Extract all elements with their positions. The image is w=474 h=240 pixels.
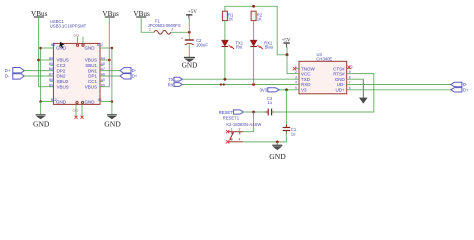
pin CC2 stub [50, 64, 53, 66]
wire C1 to GND rail [285, 131, 287, 142]
pin numbers U4 [295, 65, 353, 90]
no-connect mark Cf2 [81, 116, 84, 119]
ground (bottom center) [269, 142, 286, 161]
svg-text:UD-: UD- [337, 82, 345, 87]
fuse F1 [148, 18, 181, 34]
wire TXD net [182, 78, 294, 80]
svg-text:CfCf: CfCf [73, 33, 79, 37]
pin GND stub [347, 78, 352, 80]
no-connect mark switch pin1 [226, 130, 229, 133]
switch RESET1 K2-1808SN-A4SW [223, 115, 262, 141]
wire VBus left vertical [38, 17, 40, 87]
connector USBC1 body [53, 43, 100, 104]
pin V3 stub [294, 89, 299, 91]
svg-text:GND: GND [104, 119, 121, 128]
capacitor C1 [283, 112, 297, 136]
wire R2 to LED [253, 21, 255, 41]
svg-text:5: 5 [295, 86, 297, 90]
svg-text:1u: 1u [267, 100, 272, 105]
node junction R2 top [252, 5, 255, 8]
wire 3V3 to V3 [279, 89, 294, 91]
net port D+ (left) [5, 68, 24, 74]
svg-text:100uF: 100uF [196, 43, 208, 48]
pin CE circles top [76, 44, 78, 46]
mouse cursor [59, 42, 64, 49]
wire V3 node down [285, 90, 287, 112]
power flag VBus (middle) [102, 10, 119, 18]
node junction B1 [39, 47, 42, 50]
wire D- to DN2 [24, 75, 53, 77]
wire VBus middle vertical [108, 17, 110, 60]
svg-text:A8: A8 [101, 62, 105, 66]
no-connect mark switch pin3 [226, 140, 229, 143]
wire D+ to DP2 [24, 70, 53, 72]
wire switch pin2 up [243, 131, 254, 133]
capacitor C3 [265, 96, 275, 115]
IC U4 CH340E body [299, 61, 347, 94]
pin VCC stub [294, 73, 299, 75]
svg-text:+: + [181, 37, 183, 41]
svg-text:RESET1: RESET1 [223, 115, 240, 120]
wire reset junction to switch [253, 112, 255, 132]
svg-text:B7: B7 [49, 73, 53, 77]
net port RESET [219, 110, 244, 115]
net port D+ (right of connector) [120, 73, 138, 79]
net port RX [168, 82, 183, 87]
svg-text:VCC: VCC [301, 71, 311, 76]
svg-text:D+: D+ [132, 74, 138, 79]
pin SBU2 stub [50, 80, 53, 82]
net port D- (left) [5, 73, 24, 79]
pin numbers left column [49, 57, 53, 88]
svg-text:RX: RX [168, 82, 174, 87]
svg-text:RESET: RESET [219, 110, 234, 115]
power flag +5V (near fuse) [186, 10, 197, 32]
svg-text:4: 4 [295, 81, 297, 85]
wire DN1 to flag [100, 70, 120, 72]
no-connect mark CTS# [347, 66, 350, 69]
node junction RX LED [252, 83, 255, 86]
svg-text:CC2: CC2 [57, 63, 66, 68]
svg-text:2: 2 [171, 28, 173, 32]
node junction B12 [39, 100, 42, 103]
svg-text:Blau: Blau [265, 45, 274, 50]
pin circles bottom [76, 101, 78, 103]
svg-text:1: 1 [231, 127, 233, 131]
net port D- (right of connector) [120, 68, 137, 74]
svg-text:1: 1 [149, 28, 151, 32]
wire C2 to ground [188, 44, 190, 57]
resistor R2 [251, 11, 263, 21]
ground (U4) [359, 79, 368, 103]
svg-text:CC1: CC1 [88, 79, 97, 84]
wire RESET to C3 [243, 111, 267, 113]
svg-text:B5: B5 [49, 62, 53, 66]
wire LED TX1 to TXD [224, 47, 226, 79]
net port TX [168, 77, 182, 82]
svg-text:JFC0603-0500FS: JFC0603-0500FS [148, 23, 181, 28]
svg-text:VBUS: VBUS [57, 84, 69, 89]
wire GND of U4 [352, 78, 364, 80]
wire B1 stub [41, 47, 54, 49]
no-connect mark TNOW [293, 67, 296, 70]
wire right VBUS vertical [108, 60, 110, 87]
svg-text:V3: V3 [301, 88, 307, 93]
svg-text:CfCf: CfCf [73, 109, 79, 113]
svg-text:B9: B9 [49, 83, 53, 87]
svg-text:D+: D+ [463, 88, 469, 93]
net port 3V3 [260, 87, 280, 92]
wire DP1 to flag [100, 75, 120, 77]
node junction +5V VCC [286, 53, 289, 56]
svg-text:DN2: DN2 [57, 74, 66, 79]
svg-text:1K: 1K [257, 16, 262, 21]
pin UD- stub [347, 84, 352, 86]
pin CTS# stub [347, 68, 352, 70]
svg-text:4: 4 [239, 138, 241, 142]
wire VBus to fuse [141, 17, 154, 32]
svg-text:GND: GND [85, 45, 96, 50]
ground (below C2) [182, 57, 198, 70]
wire GND left vertical [40, 48, 42, 102]
net port D+ (far right) [451, 88, 469, 93]
wire LED RX1 to RXD [253, 47, 255, 85]
svg-text:A5: A5 [101, 78, 105, 82]
svg-text:USB3.1C16PFSMT: USB3.1C16PFSMT [50, 24, 87, 29]
svg-text:SBU1: SBU1 [85, 63, 97, 68]
wire UD- to D- [352, 84, 451, 86]
svg-text:TX: TX [168, 77, 174, 82]
wire A1 stub [100, 101, 112, 103]
svg-text:GND: GND [56, 100, 67, 105]
wire VBUS top-right [100, 59, 109, 61]
wire GND right vertical [111, 48, 113, 102]
svg-text:GND: GND [269, 152, 286, 161]
svg-text:VBUS: VBUS [85, 58, 97, 63]
svg-text:D-: D- [5, 74, 10, 79]
capacitor C2 [181, 32, 208, 47]
wire B12 stub [41, 101, 54, 103]
node junction A12 [111, 47, 114, 50]
wire switch pin4 to GND rail [243, 141, 286, 143]
wire fuse to +5V node [171, 31, 190, 33]
wire A12 stub [100, 47, 112, 49]
svg-text:B6: B6 [49, 67, 53, 71]
node junction fuse output [188, 31, 191, 34]
node junction right VBUS [108, 59, 111, 62]
node junction A1 [111, 100, 114, 103]
wire RTS# return [286, 74, 373, 112]
power flag VBus (fuse) [133, 10, 150, 18]
svg-text:K2-1808SN-A4SW: K2-1808SN-A4SW [226, 122, 261, 127]
node junction VBus-VBUS pin [37, 59, 40, 62]
LED RX1 [250, 40, 273, 49]
svg-text:GND: GND [33, 119, 50, 128]
svg-text:VBUS: VBUS [85, 84, 97, 89]
svg-text:D-: D- [132, 68, 137, 73]
svg-text:B8: B8 [49, 78, 53, 82]
pin RXD stub [294, 84, 299, 86]
svg-text:VBUS: VBUS [57, 58, 69, 63]
svg-text:3V3: 3V3 [260, 87, 268, 92]
node junction reset-switch [252, 111, 255, 114]
pin SBU1 stub [100, 64, 103, 66]
pin RTS# stub [347, 73, 352, 75]
svg-text:SBU2: SBU2 [57, 79, 69, 84]
wire R1 to LED [224, 21, 226, 41]
wire +5V to VCC [287, 55, 294, 74]
svg-text:DP1: DP1 [88, 74, 97, 79]
svg-text:GND: GND [182, 62, 198, 70]
node junction V3 [285, 88, 288, 91]
svg-text:GND: GND [85, 100, 96, 105]
svg-text:RTS#: RTS# [333, 71, 345, 76]
pin numbers right column [101, 57, 105, 88]
node junction TX LED [224, 78, 227, 81]
ground (left of connector) [33, 102, 50, 129]
svg-text:3: 3 [295, 75, 297, 79]
no-connect mark Cf1 [75, 116, 78, 119]
svg-text:Rot: Rot [236, 45, 243, 50]
LED TX1 [222, 40, 244, 49]
node junction GND rail [276, 141, 279, 144]
net port D- (far right) [451, 82, 468, 87]
wire VBUS bottom-right stub [100, 86, 109, 88]
wire +5V rail above R1 R2 [225, 6, 287, 55]
power flag VBus (left) [31, 10, 48, 18]
svg-text:TXD: TXD [301, 77, 311, 82]
pin TNOW stub [294, 68, 299, 70]
svg-text:1K: 1K [228, 16, 233, 21]
svg-text:DN1: DN1 [88, 68, 97, 73]
pin CC1 stub [100, 80, 103, 82]
pin TXD stub [294, 78, 299, 80]
wire VBUS top-left stub [39, 59, 54, 61]
ground (right of connector) [104, 102, 121, 129]
svg-text:CH340E: CH340E [316, 56, 332, 61]
svg-text:B12: B12 [51, 98, 57, 102]
svg-text:GND: GND [335, 77, 346, 82]
svg-text:DP2: DP2 [57, 68, 66, 73]
svg-text:2: 2 [295, 70, 297, 74]
svg-text:B1: B1 [51, 43, 55, 47]
wire RXD net [182, 84, 294, 86]
resistor R1 [222, 11, 234, 21]
svg-text:1u: 1u [291, 131, 296, 136]
wire C3 to node [272, 111, 286, 113]
svg-text:D-: D- [463, 82, 468, 87]
svg-text:D+: D+ [5, 68, 11, 73]
power flag +5V (near U4) [282, 39, 291, 55]
wire UD+ to D+ [352, 89, 451, 91]
svg-text:1: 1 [295, 65, 297, 69]
wire VBUS bottom-left stub [39, 86, 54, 88]
svg-text:A12: A12 [97, 43, 103, 47]
svg-text:RXD: RXD [301, 82, 311, 87]
pin Cf stub 2 [81, 104, 83, 116]
svg-text:UD+: UD+ [336, 88, 345, 93]
node marks RXD [220, 83, 222, 85]
pin UD+ stub [347, 89, 352, 91]
svg-text:2: 2 [239, 127, 241, 131]
svg-text:B4: B4 [49, 57, 53, 61]
pin Cf stub 1 [75, 104, 77, 116]
